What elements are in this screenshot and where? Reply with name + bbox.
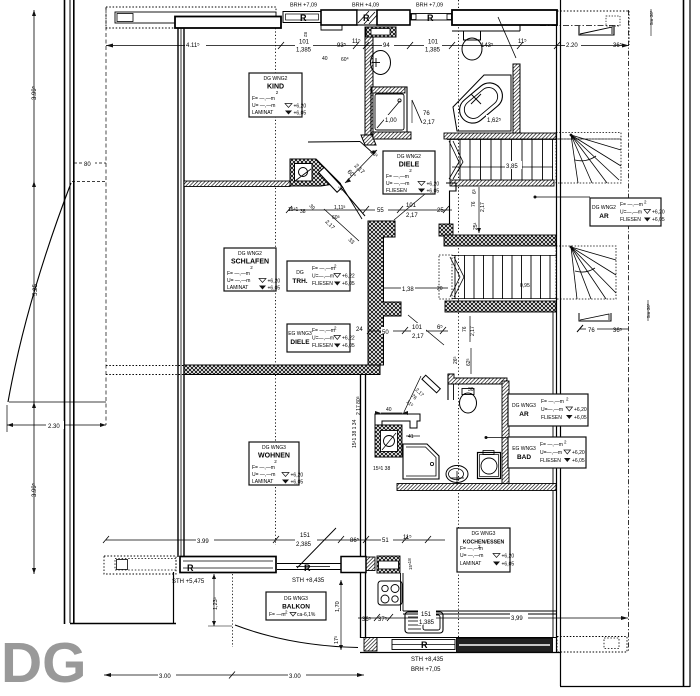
dim row top y=45 — [106, 42, 629, 49]
svg-text:1,00: 1,00 — [385, 118, 397, 124]
dim line 2.30 — [7, 405, 106, 432]
kitchen sink — [405, 612, 443, 633]
svg-text:R: R — [300, 13, 307, 23]
diagonal dim line door — [345, 150, 377, 183]
bath WNG3 bottom wall hatched — [397, 484, 556, 491]
dim 1,70 vertical — [339, 580, 343, 650]
wall piece right of balcony door — [341, 557, 366, 573]
leader diele wng2 — [394, 194, 425, 220]
svg-text:+6,05: +6,05 — [268, 286, 281, 292]
stair upper top hatch bar — [444, 133, 556, 139]
bath WNG3 left wall white piece — [375, 414, 420, 428]
room label box BAD WNG3 — [508, 437, 586, 468]
wall mid-right vertical x=556-561 — [553, 0, 561, 686]
svg-text:STH +8,435: STH +8,435 — [411, 657, 444, 663]
dim 1,23 vertical — [208, 574, 232, 626]
room label box KIND — [249, 73, 306, 117]
diagonal wall chimney to TRH with door — [318, 161, 365, 219]
svg-text:DG WNG3: DG WNG3 — [284, 596, 308, 602]
balcony parapet dark bar — [457, 639, 553, 653]
balcony dotted edge — [232, 574, 234, 647]
svg-text:55: 55 — [377, 208, 384, 214]
svg-text:U=—,—m: U=—,—m — [312, 336, 334, 342]
svg-text:DG WNG3: DG WNG3 — [472, 531, 496, 537]
stove — [378, 581, 402, 605]
svg-text:BRH +7,09: BRH +7,09 — [290, 3, 317, 9]
svg-text:+6,20: +6,20 — [427, 182, 440, 188]
svg-text:+6,20: +6,20 — [572, 450, 585, 456]
svg-text:FLIESEN: FLIESEN — [620, 217, 641, 223]
dim 80 dashed — [72, 163, 107, 182]
wall SCHLAFEN/KIND hatched — [184, 181, 290, 187]
svg-text:+6,05: +6,05 — [652, 217, 665, 223]
dashed vertical line x=106 — [105, 7, 107, 425]
svg-text:FLIESEN: FLIESEN — [312, 281, 333, 287]
svg-text:1,385: 1,385 — [419, 620, 435, 626]
dim 62,5 vertical — [470, 348, 472, 374]
stair upper break line — [449, 141, 463, 179]
kitchen counter edge — [401, 573, 557, 614]
svg-text:FLIESEN: FLIESEN — [312, 343, 333, 349]
svg-text:51: 51 — [382, 538, 389, 544]
svg-text:24: 24 — [356, 327, 363, 333]
step lines below wall 2 — [321, 25, 342, 30]
window band WOHNEN dotted part — [104, 556, 176, 574]
svg-text:+6,05: +6,05 — [342, 343, 355, 349]
dash-dot vertical section line x=458 — [458, 0, 460, 638]
svg-text:1,385: 1,385 — [296, 48, 312, 54]
svg-text:ca-6,1%: ca-6,1% — [297, 612, 316, 618]
top wall bar 3 — [377, 10, 410, 25]
bathtub platform — [453, 75, 511, 131]
svg-text:AR: AR — [519, 411, 529, 418]
svg-text:1,385: 1,385 — [425, 48, 441, 54]
svg-text:80: 80 — [84, 162, 91, 168]
toilet WNG2 — [462, 31, 482, 60]
stair upper bottom hatch bar — [450, 180, 554, 186]
crosshatch wall WOHNEN top — [184, 365, 380, 375]
top-left window band — [115, 12, 276, 23]
washing machine WNG3 — [375, 425, 402, 457]
kitchen hatch pier left bottom — [364, 638, 377, 652]
svg-text:2.30: 2.30 — [48, 424, 60, 430]
svg-text:76: 76 — [423, 111, 430, 117]
dim row y=210 middle — [286, 206, 452, 213]
svg-text:F= —,—m: F= —,—m — [541, 399, 564, 405]
svg-text:F= —,—m: F= —,—m — [312, 328, 335, 334]
svg-text:U=—,—m: U=—,—m — [620, 210, 642, 216]
vertical dim stack left of stairs — [470, 187, 481, 342]
svg-text:41: 41 — [408, 434, 414, 440]
kitchen dim labels — [350, 534, 528, 627]
dim row y=331 — [367, 327, 448, 334]
svg-text:F= —,—m: F= —,—m — [620, 202, 643, 208]
bathtub — [454, 78, 507, 129]
svg-text:151: 151 — [421, 612, 432, 618]
svg-text:151: 151 — [300, 533, 311, 539]
bath WNG2 left wall hatched — [361, 27, 376, 145]
svg-text:BRH +4,09: BRH +4,09 — [352, 3, 379, 9]
diagonal dim labels — [324, 149, 379, 246]
svg-text:1541: 1541 — [288, 207, 299, 213]
stair upper winder fan — [556, 134, 621, 183]
svg-text:2,17: 2,17 — [412, 334, 424, 340]
svg-text:+6,05: +6,05 — [291, 480, 304, 486]
stair lower break line — [450, 257, 464, 297]
left dim texts — [31, 85, 96, 497]
svg-text:5.25: 5.25 — [33, 284, 39, 296]
svg-text:F= —,—m: F= —,—m — [252, 96, 275, 102]
svg-text:LAMINAT: LAMINAT — [252, 110, 273, 116]
crosshatch bar landing top — [444, 235, 556, 246]
svg-text:DG WNG2: DG WNG2 — [238, 251, 262, 257]
svg-text:101: 101 — [406, 203, 417, 209]
balcony door open leaf — [297, 528, 336, 568]
door swing WNG2 bath top — [498, 17, 516, 58]
toilet WNG3 lower — [446, 466, 468, 486]
bath WNG2 right wall hatched — [513, 64, 520, 134]
svg-text:76: 76 — [588, 328, 595, 334]
svg-text:3.00: 3.00 — [289, 674, 301, 680]
svg-text:30: 30 — [468, 387, 474, 393]
dotted parapet right — [557, 637, 627, 653]
svg-text:40: 40 — [386, 407, 392, 413]
svg-text:LAMINAT: LAMINAT — [227, 285, 248, 291]
svg-text:1541 38 1 34: 1541 38 1 34 — [352, 419, 358, 448]
svg-text:101: 101 — [299, 40, 310, 46]
room label box EG DIELE — [287, 324, 355, 352]
svg-text:U= —,—m: U= —,—m — [252, 472, 275, 478]
balcony arc — [235, 625, 358, 648]
kitchen hatch pier left top — [362, 557, 375, 571]
dim row y=540 — [103, 536, 445, 543]
svg-text:0,95: 0,95 — [520, 283, 530, 289]
svg-text:25: 25 — [437, 208, 444, 214]
svg-text:LAMINAT: LAMINAT — [460, 561, 481, 567]
bathtub tap — [471, 94, 481, 104]
svg-text:U= —,—m: U= —,—m — [386, 181, 409, 187]
right small dims — [586, 10, 654, 334]
room label box SCHLAFEN — [224, 248, 280, 292]
bath WNG3 right wall hatched — [502, 381, 509, 484]
svg-text:+6,20: +6,20 — [291, 473, 304, 479]
svg-text:STH +5,475: STH +5,475 — [172, 579, 205, 585]
svg-text:+6,22: +6,22 — [342, 274, 355, 280]
AR room walls mid — [446, 183, 456, 224]
dim right side 2.20/36 row already in top row; small vertical dims right — [648, 9, 651, 321]
svg-text:R: R — [427, 13, 434, 23]
svg-text:DG WNG2: DG WNG2 — [397, 154, 421, 160]
middle dim row texts y=210 — [288, 203, 444, 221]
bath WNG2 top crosshatch bar with duct — [366, 27, 396, 37]
top wall bar east — [452, 10, 557, 31]
shelf symbol right mid — [579, 313, 611, 321]
svg-text:FLIESEN: FLIESEN — [541, 415, 562, 421]
top-left dotted dormer rect — [106, 7, 276, 28]
roof edge arc left — [8, 183, 71, 402]
TRH crosshatch column — [368, 221, 401, 365]
svg-text:76: 76 — [471, 201, 477, 207]
hatched pier top — [357, 10, 377, 25]
shower WNG3 — [403, 444, 439, 479]
dotted vertical x=275 (KIND/SCHLAFEN/WOHNEN axis) — [275, 28, 277, 545]
svg-text:3.99: 3.99 — [197, 539, 209, 545]
stair upper treads — [447, 139, 556, 180]
svg-text:3.00: 3.00 — [159, 674, 171, 680]
top wall bar 2 — [321, 10, 357, 25]
dim 41 bad — [406, 435, 420, 437]
dim 40 bad — [375, 411, 408, 415]
stair upper dotted bar — [556, 133, 621, 140]
KIND room south boundary — [308, 142, 374, 155]
svg-text:3,85: 3,85 — [506, 164, 518, 170]
door swing WNG2 bath/diele — [412, 100, 422, 123]
wall right outer (double lines) — [684, 0, 691, 687]
svg-text:R: R — [363, 13, 370, 23]
svg-text:DG: DG — [1, 631, 87, 695]
svg-text:F= —,—m: F= —,—m — [540, 442, 563, 448]
svg-text:+6,20: +6,20 — [502, 554, 515, 560]
svg-text:2,385: 2,385 — [296, 542, 312, 548]
svg-text:TRH.: TRH. — [292, 278, 307, 285]
window R2 — [411, 14, 452, 21]
svg-text:STH +8,435: STH +8,435 — [292, 578, 325, 584]
bath WNG2 dim labels — [384, 111, 506, 126]
door swing below stairs — [408, 315, 444, 345]
svg-text:101: 101 — [428, 40, 439, 46]
bottom wall kochen edges — [360, 638, 560, 653]
svg-text:2,17 805: 2,17 805 — [356, 396, 362, 415]
line end of arc — [9, 401, 106, 403]
stair lower dotted left end — [439, 255, 452, 299]
svg-text:DG WNG3: DG WNG3 — [512, 403, 536, 409]
svg-text:2,17: 2,17 — [423, 120, 435, 126]
dim row bottom y=675 — [104, 672, 364, 679]
toilet WNG3 upper — [460, 389, 477, 414]
sink WNG2 — [371, 51, 391, 75]
svg-text:U= —,—m: U= —,—m — [227, 278, 250, 284]
svg-text:5m·364: 5m·364 — [649, 10, 654, 25]
svg-text:F= —,—m: F= —,—m — [312, 266, 335, 272]
shower WNG2 — [371, 87, 411, 139]
leader AR wng2 — [534, 196, 591, 199]
svg-text:3,99: 3,99 — [511, 616, 523, 622]
svg-text:U= —,—m: U= —,—m — [460, 553, 483, 559]
dotted continuation wall left of 184 — [106, 366, 184, 375]
svg-text:+6,20: +6,20 — [294, 104, 307, 110]
svg-text:FLIESEN: FLIESEN — [386, 188, 407, 194]
dim 76/36 row right mid y=329 — [577, 325, 628, 332]
svg-text:+6,05: +6,05 — [572, 458, 585, 464]
crosshatch bar stair lower bottom — [445, 301, 556, 312]
sink WNG3 — [478, 451, 501, 479]
svg-text:+6,20: +6,20 — [574, 407, 587, 413]
svg-text:+6,05: +6,05 — [294, 111, 307, 117]
dim row y=618 kitchen — [358, 614, 628, 621]
svg-text:76: 76 — [462, 326, 468, 332]
svg-text:U=—,—m: U=—,—m — [541, 407, 563, 413]
bath WNG3 dim labels — [352, 358, 474, 472]
svg-text:KOCHEN/ESSEN: KOCHEN/ESSEN — [463, 540, 505, 546]
svg-text:F= —,—m: F= —,—m — [227, 271, 250, 277]
svg-text:2,17: 2,17 — [470, 326, 476, 336]
svg-text:DG WNG2: DG WNG2 — [592, 205, 616, 211]
kitchen/wohnen divider wall x=360-366 — [361, 374, 366, 638]
svg-text:1,70: 1,70 — [335, 601, 341, 612]
chimney block — [290, 159, 340, 186]
room label box AR WNG2 — [590, 198, 665, 226]
dim row y=331 texts — [356, 323, 476, 364]
svg-text:DG WNG3: DG WNG3 — [262, 445, 286, 451]
window R wohnen solid — [180, 557, 276, 573]
svg-text:50: 50 — [382, 330, 389, 336]
stair lower winder fan — [556, 246, 616, 299]
svg-text:2,17: 2,17 — [480, 202, 486, 212]
door WNG3 bath diagonal — [404, 375, 440, 412]
svg-text:20: 20 — [437, 286, 443, 292]
svg-text:DIELE: DIELE — [290, 339, 310, 346]
svg-text:DG: DG — [296, 270, 304, 276]
svg-text:40: 40 — [322, 56, 328, 62]
svg-text:AR: AR — [599, 213, 609, 220]
svg-text:FLIESEN: FLIESEN — [540, 458, 561, 464]
svg-text:+6,05: +6,05 — [574, 415, 587, 421]
dim 3,85 — [452, 166, 553, 168]
svg-text:5m·364: 5m·364 — [646, 303, 651, 318]
svg-text:+6,22: +6,22 — [342, 336, 355, 342]
svg-text:1,38: 1,38 — [402, 287, 414, 293]
svg-text:DG WNG2: DG WNG2 — [264, 76, 288, 82]
room label box KOCHEN/ESSEN — [457, 528, 514, 572]
wall inner left (double lines) — [178, 23, 184, 557]
svg-text:94: 94 — [383, 43, 390, 49]
dim texts top row — [185, 32, 623, 63]
dash-dot vertical section line x=628 — [628, 10, 630, 652]
svg-text:1551 38: 1551 38 — [373, 466, 390, 472]
svg-text:LAMINAT: LAMINAT — [252, 479, 273, 485]
svg-text:+6,20: +6,20 — [652, 210, 665, 216]
svg-text:38: 38 — [300, 209, 306, 215]
svg-text:R: R — [304, 563, 311, 573]
wall left outer (double lines) — [65, 0, 74, 624]
svg-text:EG WNG3: EG WNG3 — [512, 446, 536, 452]
svg-text:+6,05: +6,05 — [342, 281, 355, 287]
window R kitchen — [392, 640, 455, 650]
svg-text:F= —m: F= —m — [269, 612, 286, 618]
kitchen top crosshatch block — [377, 556, 400, 573]
svg-text:U=—,—m: U=—,—m — [312, 274, 334, 280]
svg-text:+6,20: +6,20 — [268, 279, 281, 285]
bath WNG3 top wall hatched — [448, 374, 507, 400]
svg-text:+6,05: +6,05 — [427, 189, 440, 195]
dim 1,38 landing — [383, 287, 448, 289]
svg-text:+6,05: +6,05 — [502, 562, 515, 568]
svg-text:101: 101 — [412, 325, 423, 331]
svg-text:F= —,—m: F= —,—m — [252, 465, 275, 471]
svg-text:F= —,—m: F= —,—m — [386, 174, 409, 180]
terrace lower-left — [70, 572, 176, 624]
bottom labels — [158, 530, 444, 680]
room label box WOHNEN — [249, 442, 303, 486]
room label box AR WNG3 — [508, 394, 588, 426]
svg-text:2.20: 2.20 — [566, 43, 578, 49]
top wall bar west — [175, 17, 281, 29]
stair dim labels — [401, 161, 530, 293]
leader BAD wng3 — [485, 436, 529, 439]
room label box BALKON — [266, 592, 326, 620]
svg-text:R: R — [187, 563, 194, 573]
svg-text:BRH +7,05: BRH +7,05 — [411, 667, 441, 673]
room label box DIELE WNG2 — [383, 151, 439, 195]
stair lower treads — [452, 255, 556, 299]
dotted top right edge — [557, 10, 629, 12]
svg-text:EG WNG3: EG WNG3 — [288, 331, 312, 337]
door swing diele/trh — [324, 209, 359, 241]
svg-text:U=—,—m: U=—,—m — [540, 450, 562, 456]
svg-text:2,17: 2,17 — [406, 213, 418, 219]
window R1 — [283, 12, 321, 23]
crosshatch block left of landing — [439, 224, 453, 236]
dormer shelf symbol top-right — [579, 16, 620, 35]
room label box TRH — [287, 261, 355, 291]
dim line vertical left 3.99/5.25/3.99 — [32, 10, 36, 574]
balcony door band — [277, 564, 341, 570]
dash-dot sill line top right — [540, 25, 620, 27]
svg-text:R: R — [421, 640, 428, 650]
svg-text:BAD: BAD — [517, 454, 531, 461]
bottom-right boundary line — [560, 686, 690, 688]
svg-text:BRH +7,09: BRH +7,09 — [416, 3, 443, 9]
svg-text:U= —,—m: U= —,—m — [252, 103, 275, 109]
svg-text:82: 82 — [303, 32, 308, 38]
